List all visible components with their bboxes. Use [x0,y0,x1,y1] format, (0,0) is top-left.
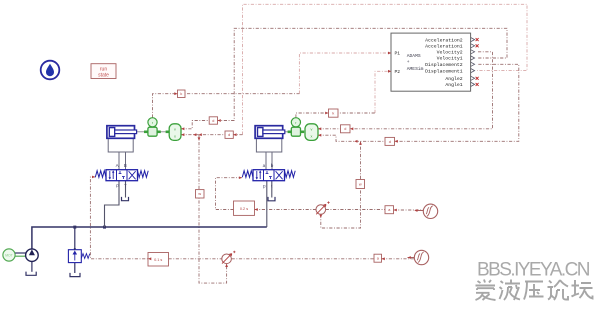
svg-text:+: + [407,60,410,65]
svg-text:k: k [332,112,334,116]
svg-text:w: w [359,182,362,186]
svg-text:Velocity2: Velocity2 [437,50,463,56]
svg-text:B: B [124,163,127,168]
svg-text:P2: P2 [395,69,401,75]
svg-text:x: x [174,134,176,138]
svg-text:Angle2: Angle2 [445,76,462,82]
svg-text:d: d [212,119,214,123]
svg-text:BBS.IYEYA.CN: BBS.IYEYA.CN [477,260,591,281]
svg-text:0.2 s: 0.2 s [240,207,248,211]
svg-text:0.1 s: 0.1 s [154,258,162,262]
svg-text:d: d [389,140,391,144]
svg-text:run: run [100,66,107,72]
svg-text:k: k [180,92,182,96]
svg-text:Displacement2: Displacement2 [425,62,463,68]
svg-text:T: T [124,183,127,188]
svg-text:d: d [228,133,230,137]
svg-text:v: v [174,128,176,132]
svg-text:x: x [311,134,313,138]
svg-text:a: a [263,163,266,168]
svg-text:v: v [311,128,313,132]
svg-text:p: p [263,183,266,188]
svg-text:Displacement1: Displacement1 [425,68,463,74]
svg-text:d: d [344,127,346,131]
svg-text:Acceleration1: Acceleration1 [425,44,463,50]
svg-text:Angle1: Angle1 [445,82,462,88]
svg-text:MOT: MOT [5,254,13,258]
svg-text:w: w [198,192,201,196]
svg-text:AMESim: AMESim [407,66,424,72]
svg-text:state: state [98,73,109,79]
svg-text:b: b [271,163,274,168]
svg-text:Velocity1: Velocity1 [437,56,463,62]
svg-text:P1: P1 [395,51,401,57]
svg-text:ADAMS: ADAMS [407,53,421,59]
svg-text:Acceleration2: Acceleration2 [425,37,463,43]
svg-text:P: P [116,183,119,188]
